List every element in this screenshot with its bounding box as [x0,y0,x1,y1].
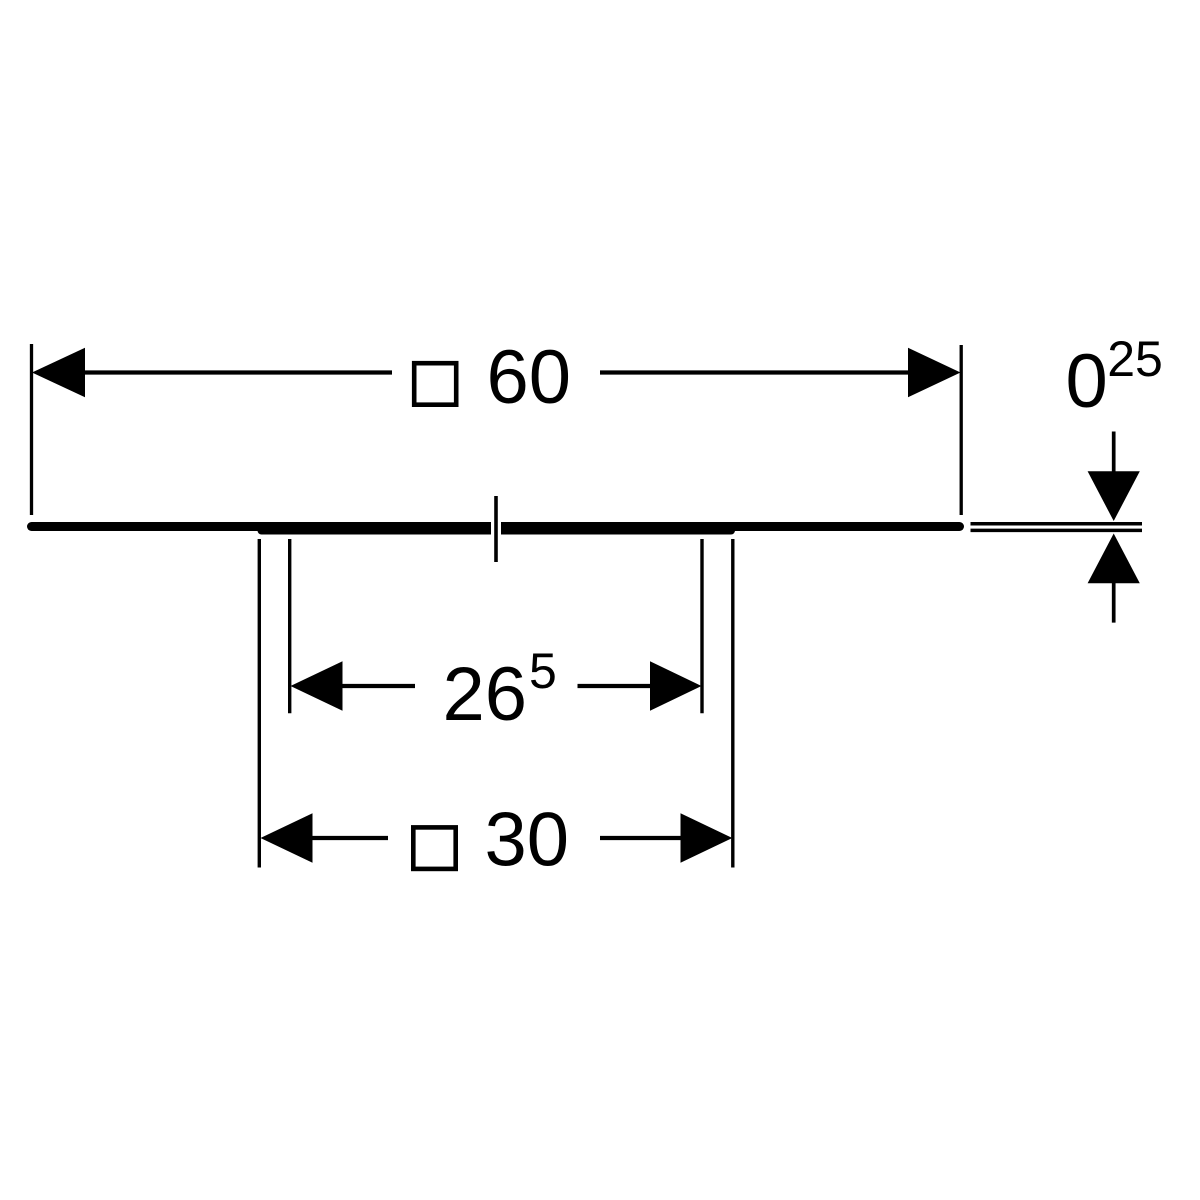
dimension 26.5: dimension line right segment [578,684,652,688]
dimension 60: left extension line [30,344,33,515]
svg-text:60: 60 [487,335,572,420]
svg-text:26: 26 [443,652,528,737]
plate surface: bottom thin line [971,529,1143,533]
svg-text:30: 30 [485,798,570,883]
dimension 30: dimension line left segment [312,836,389,840]
plate: main bar left segment [32,522,471,531]
dimension 26.5: left inner extension line [288,539,291,713]
dimension 60: left arrow [32,348,85,398]
dimension 26.5: dimension line left segment [342,684,416,688]
dimension 26.5: right arrow [650,661,702,711]
dimension 0.25: up arrow [1088,534,1140,584]
svg-text:0: 0 [1066,339,1108,424]
svg-text:5: 5 [529,643,557,699]
dimension 26.5: left arrow [291,661,343,711]
plate: centre break tick [494,496,498,562]
dimension 60: dimension line right segment [600,370,909,374]
dimension 30: dimension line right segment [600,836,681,840]
svg-text:25: 25 [1107,331,1163,387]
dimension 30: square symbol [413,827,455,869]
plate surface: top thin line [971,522,1143,526]
dimension 30: left arrow [261,813,313,863]
dimension 26.5: left outer extension line (shared with 30) [258,539,261,868]
plate: inner section bar [262,527,471,535]
dimension 60: right extension line [960,345,963,515]
plate: main bar right segment [501,522,955,531]
dimension 0.25: upper leader line [1112,432,1116,501]
dimension 60: square symbol [414,363,456,405]
dimension 26.5: right inner extension line [700,539,703,713]
dimension 0.25: lower leader line [1112,555,1116,623]
dimension 60: dimension line left segment [84,370,392,374]
dimension 0.25: down arrow [1088,471,1140,521]
dimension 60: right arrow [908,348,961,398]
dimension 30: right arrow [681,813,733,863]
dimension 26.5: right outer extension line (shared with 30) [731,539,734,868]
